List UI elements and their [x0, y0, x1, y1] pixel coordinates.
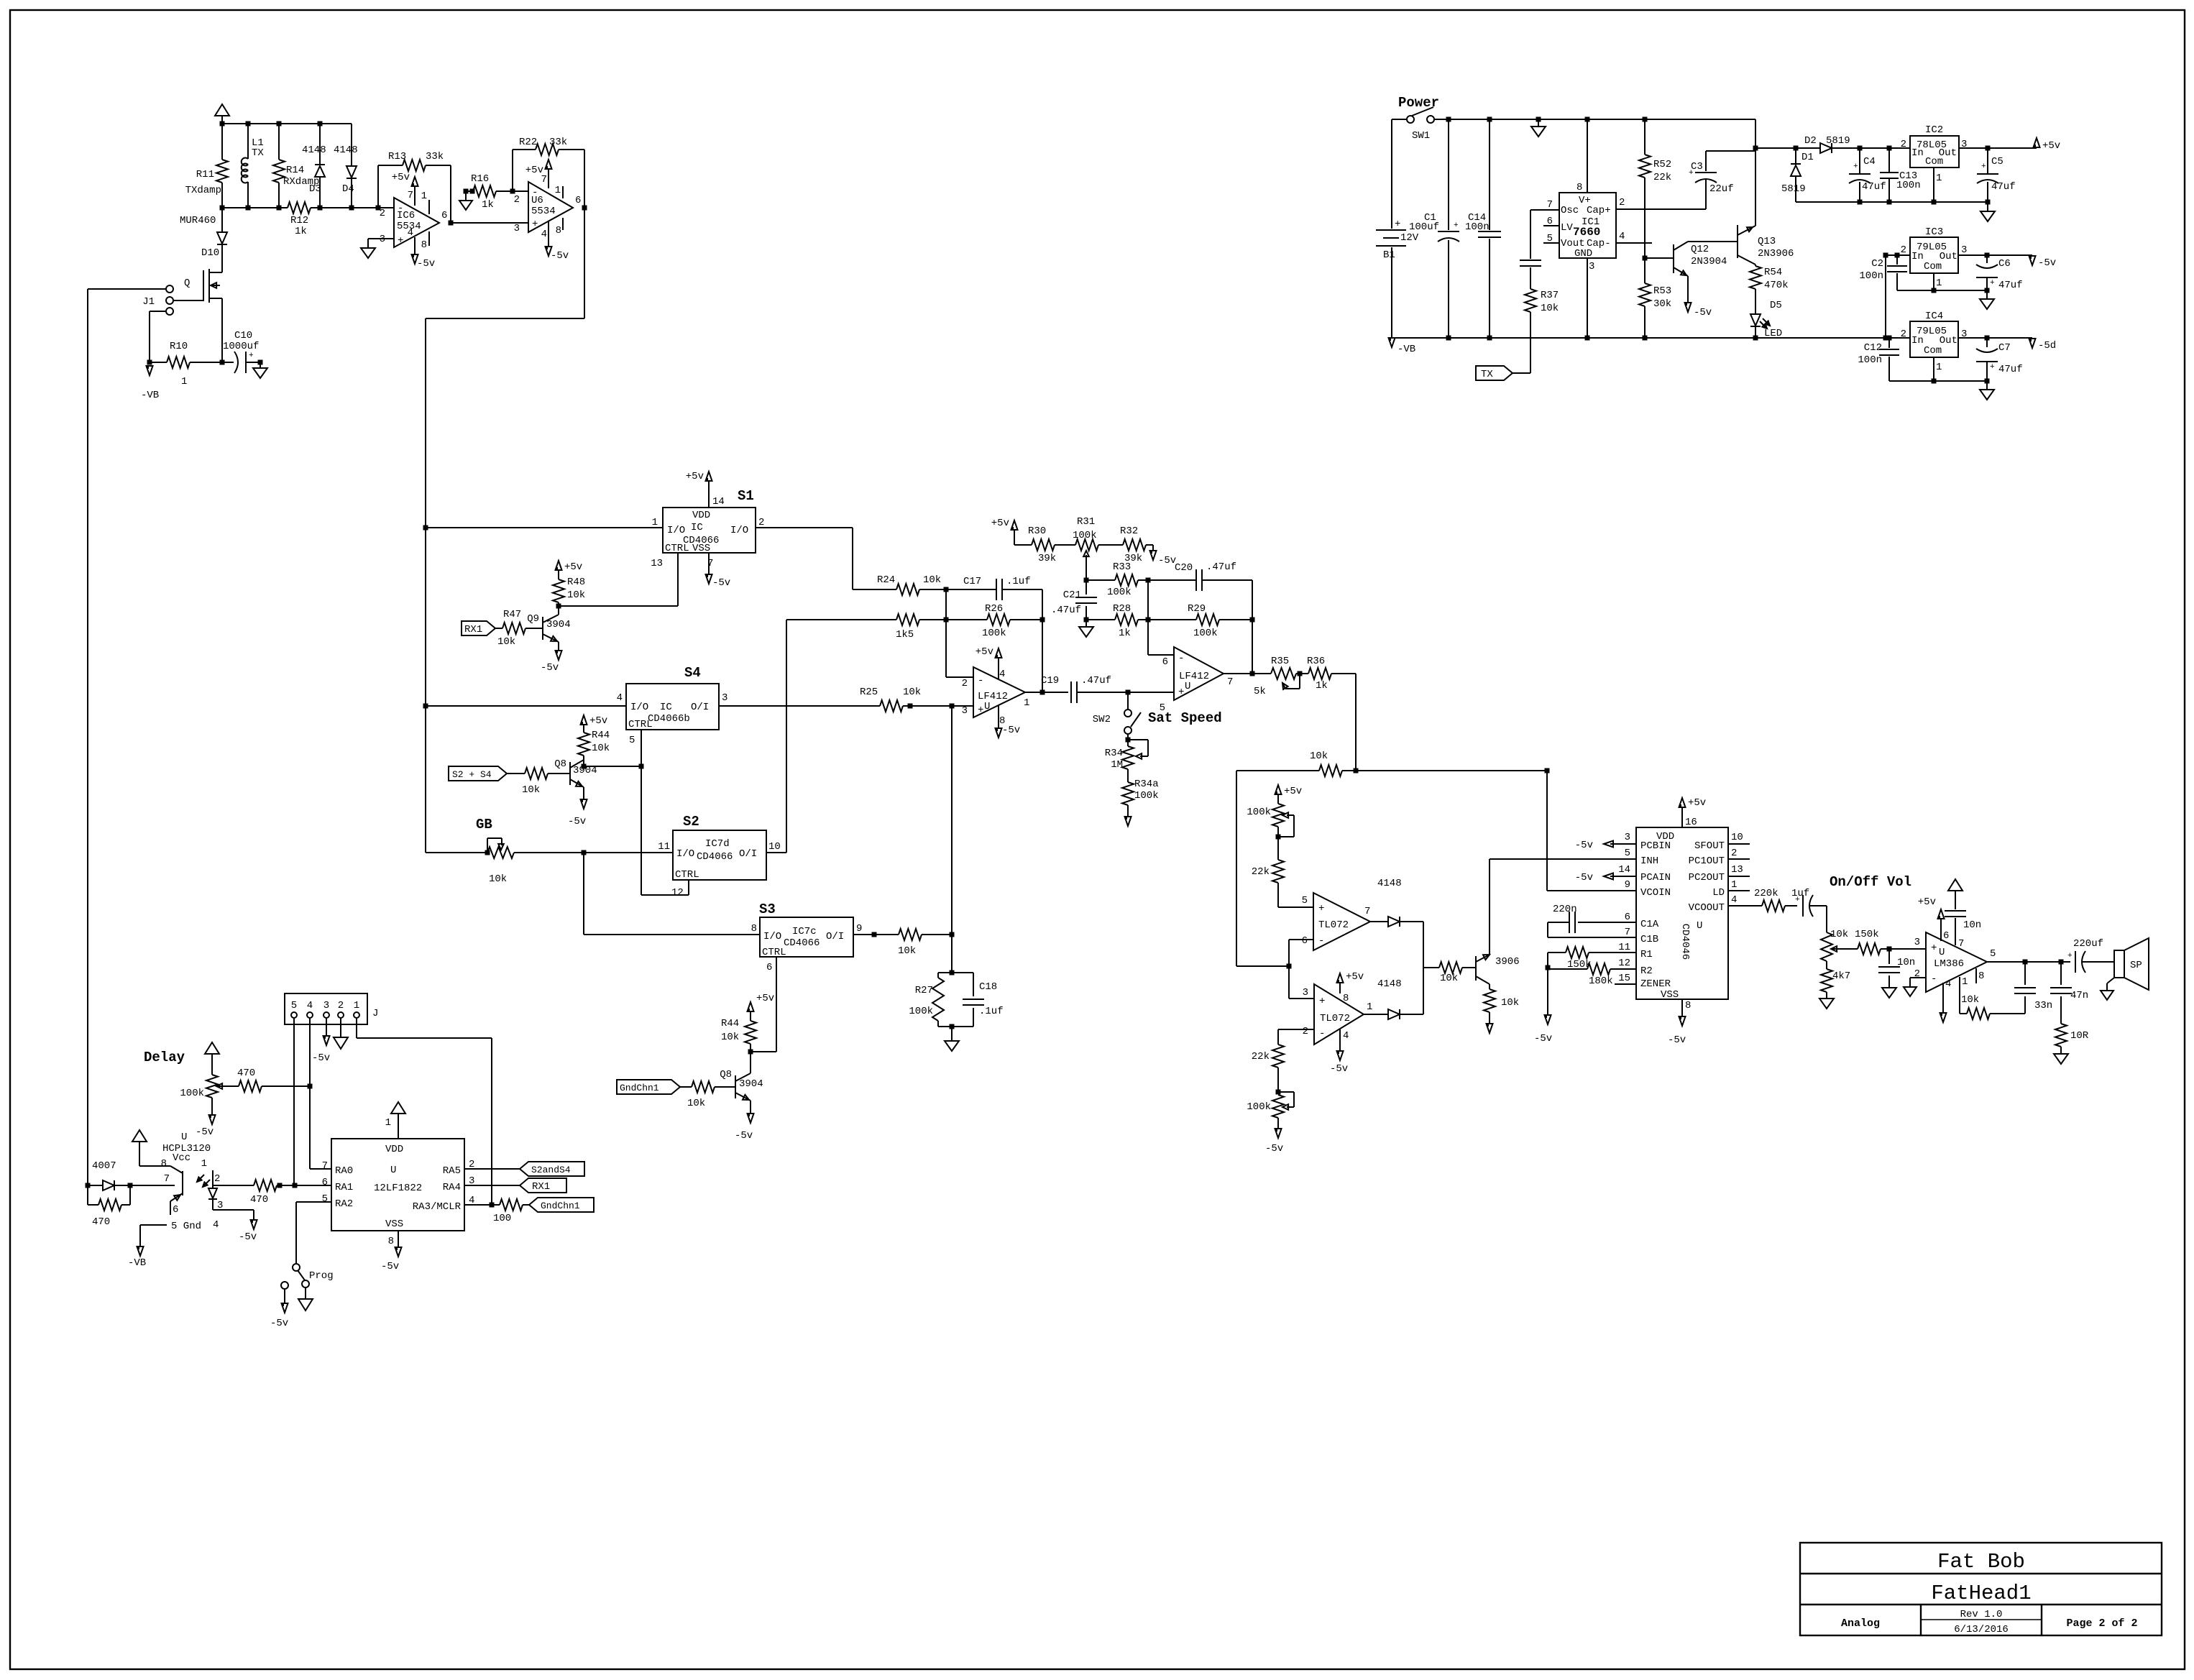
svg-text:IC2: IC2: [1925, 124, 1943, 136]
op-amp U LM386: [1914, 932, 1996, 992]
svg-text:100k: 100k: [1193, 628, 1218, 639]
IC U CD4046: [1636, 827, 1728, 1001]
svg-text:R34: R34: [1105, 748, 1123, 759]
svg-text:8: 8: [556, 225, 561, 237]
node C12 top: [1887, 336, 1892, 341]
svg-text:VSS: VSS: [385, 1218, 403, 1230]
power -5v IC6 pin4: [408, 227, 436, 270]
svg-text:100k: 100k: [1107, 587, 1132, 598]
svg-text:Q: Q: [184, 277, 190, 289]
svg-text:+: +: [1981, 162, 1986, 171]
pin6 label RA1: [322, 1177, 328, 1188]
svg-text:4148: 4148: [302, 144, 326, 156]
svg-text:2: 2: [338, 1000, 344, 1011]
svg-text:IC3: IC3: [1925, 226, 1943, 238]
node C4 top: [1858, 146, 1863, 151]
svg-text:4: 4: [1945, 978, 1951, 990]
svg-text:2: 2: [1901, 244, 1906, 256]
resistor 10k (3906 base): [1439, 962, 1476, 984]
svg-text:6: 6: [766, 962, 772, 973]
capacitor 220uf: [2067, 938, 2114, 973]
svg-text:4007: 4007: [92, 1160, 116, 1172]
power -5v R32: [1150, 545, 1177, 566]
power -5v LM386 pin4: [1940, 978, 1952, 1022]
wire pin3 column: [951, 706, 953, 973]
wire mix to VCOIN: [1547, 771, 1636, 891]
svg-text:2: 2: [514, 194, 520, 206]
svg-text:4: 4: [307, 1000, 313, 1011]
svg-text:12LF1822: 12LF1822: [374, 1183, 422, 1194]
node R33/C21 top: [1084, 578, 1089, 583]
power -5v U6 pin4: [541, 221, 569, 262]
svg-text:5: 5: [629, 735, 635, 746]
svg-text:8: 8: [1576, 182, 1582, 193]
svg-text:22k: 22k: [1252, 866, 1270, 878]
wire IC1 Osc pin7: [1530, 210, 1559, 259]
capacitor osc: [1520, 260, 1541, 289]
svg-text:D1: D1: [1801, 152, 1814, 163]
power -5v Prog: [270, 1282, 288, 1329]
svg-text:1: 1: [421, 191, 427, 202]
svg-text:100k: 100k: [1247, 1101, 1271, 1113]
LED pins 1-3: [201, 1158, 254, 1211]
switch Prog: [293, 1264, 334, 1287]
svg-text:CTRL: CTRL: [675, 869, 699, 881]
svg-text:-5v: -5v: [1694, 307, 1712, 318]
power +5v out: [2034, 138, 2061, 152]
svg-text:10k: 10k: [721, 1032, 739, 1043]
svg-text:R32: R32: [1120, 525, 1138, 537]
svg-text:10: 10: [768, 841, 781, 853]
pin2 PC1OUT stub: [1728, 848, 1750, 859]
potentiometer 10k On/Off Vol: [1821, 906, 1858, 961]
wire to C13: [1860, 147, 1910, 149]
power -5v Delay: [196, 1098, 216, 1138]
svg-text:10k: 10k: [1830, 929, 1848, 940]
svg-text:13: 13: [1731, 864, 1743, 876]
pin10 SFOUT stub: [1728, 832, 1750, 844]
svg-text:R44: R44: [592, 730, 610, 741]
svg-text:10k: 10k: [1961, 994, 1979, 1006]
svg-text:Rev 1.0: Rev 1.0: [1960, 1609, 2003, 1620]
svg-text:.1uf: .1uf: [979, 1006, 1004, 1017]
svg-text:-5v: -5v: [551, 250, 569, 262]
svg-text:C5: C5: [1991, 156, 2003, 167]
transistor Q8 3904 (S2+S4): [548, 758, 597, 800]
node pot/22k (top): [1276, 835, 1281, 840]
resistor 10k (3906 collector): [1484, 989, 1519, 1024]
svg-text:O/I: O/I: [739, 848, 757, 860]
svg-text:13: 13: [651, 558, 663, 569]
svg-text:1uf: 1uf: [1791, 888, 1809, 899]
wire S4 pin3 to R25: [719, 705, 880, 707]
capacitor 220n: [1548, 904, 1636, 937]
wire IC1 Cap+ pin2: [1616, 208, 1706, 210]
svg-text:+: +: [1318, 903, 1324, 914]
resistor R54 470k: [1750, 266, 1789, 314]
svg-text:GndChn1: GndChn1: [541, 1201, 580, 1211]
svg-text:TX: TX: [1481, 369, 1493, 380]
svg-text:+: +: [1931, 942, 1937, 954]
resistor R10 1: [150, 341, 222, 387]
svg-text:R2: R2: [1640, 965, 1653, 977]
node source/C10: [220, 360, 225, 365]
svg-text:GndChn1: GndChn1: [620, 1083, 659, 1093]
wire PIC VSS: [381, 1231, 402, 1272]
node C13 bottom: [1887, 200, 1892, 205]
svg-text:8: 8: [1343, 993, 1349, 1004]
power +5v U6 pin7: [525, 160, 552, 188]
wire S4 pin4: [426, 705, 626, 707]
svg-text:150k: 150k: [1855, 929, 1879, 940]
svg-text:-5v: -5v: [2038, 257, 2056, 269]
node R27 bottom: [950, 1024, 955, 1029]
node R53 rail: [1643, 336, 1648, 341]
svg-text:U: U: [1697, 920, 1702, 932]
svg-text:7: 7: [541, 174, 547, 185]
wire LF412a out: [1025, 692, 1042, 693]
node rail gnd: [1536, 117, 1541, 122]
node U6 output: [582, 206, 587, 211]
wire IC3 com: [1933, 273, 1934, 290]
svg-text:R27: R27: [915, 985, 933, 996]
svg-text:C20: C20: [1175, 562, 1193, 574]
capacitor C19 .47uf: [1041, 675, 1128, 703]
svg-text:1: 1: [1936, 277, 1942, 289]
svg-text:14: 14: [1618, 864, 1630, 876]
svg-text:2: 2: [1901, 139, 1906, 150]
wire pin6 column LF412b: [1148, 580, 1174, 655]
capacitor C7 47uf: [1976, 338, 2023, 381]
svg-text:8: 8: [999, 715, 1005, 727]
node R1/R2: [1546, 965, 1551, 970]
light arrows: [197, 1175, 210, 1187]
pin11 label S2: [658, 841, 670, 853]
node pot/22k (bottom): [1276, 1090, 1281, 1095]
svg-text:GND: GND: [1574, 248, 1592, 260]
pin13 label S1: [651, 558, 663, 569]
node R28/R29: [1146, 618, 1151, 623]
power -5v R1R2: [1534, 969, 1552, 1045]
svg-text:12V: 12V: [1400, 232, 1419, 244]
pin2 RA5: [464, 1159, 520, 1170]
svg-text:-5v: -5v: [270, 1318, 288, 1329]
node C21 bottom: [1084, 618, 1089, 623]
pin5 INH label: [1625, 848, 1630, 859]
wire U6-loop to GB: [426, 852, 487, 853]
diode D3 4148: [302, 124, 326, 208]
svg-text:C2: C2: [1871, 258, 1883, 270]
svg-text:CD4046: CD4046: [1679, 924, 1691, 960]
node S3 out: [872, 932, 877, 937]
svg-text:I/O: I/O: [630, 702, 648, 713]
svg-text:3904: 3904: [546, 619, 571, 630]
power +5v R48: [556, 561, 583, 573]
node R33/C20: [1146, 578, 1151, 583]
svg-text:+: +: [1454, 221, 1459, 230]
wire bottom rail right: [311, 207, 394, 208]
power -5v LED: [213, 1210, 257, 1243]
capacitor 1uf: [1791, 888, 1827, 917]
svg-text:U6: U6: [531, 195, 543, 206]
svg-text:D10: D10: [201, 247, 219, 259]
svg-text:3: 3: [722, 692, 727, 704]
node out/33n: [2023, 960, 2028, 965]
resistor 100 (MCLR): [493, 1199, 529, 1224]
capacitor 10n (input): [1878, 949, 1915, 988]
capacitor C2 100n: [1859, 255, 1907, 290]
svg-text:1: 1: [385, 1117, 391, 1129]
capacitor C17 .1uf: [946, 576, 1042, 600]
svg-text:+: +: [398, 235, 403, 247]
svg-text:Q12: Q12: [1691, 244, 1709, 255]
op-amp TL072 (upper): [1302, 893, 1371, 950]
ground +5v cluster: [1980, 202, 1995, 221]
title date: [1954, 1624, 2009, 1635]
svg-text:Q8: Q8: [554, 758, 566, 770]
resistor R48 10k: [553, 569, 585, 606]
power +5v LF412a: [976, 646, 1006, 680]
svg-text:4148: 4148: [334, 144, 358, 156]
power -5v Q8 (GndChn1): [735, 1114, 754, 1142]
wire mix node right: [1356, 770, 1547, 771]
node C13 top: [1887, 146, 1892, 151]
power arrow HCPL Vcc: [132, 1130, 147, 1166]
node mix/R36: [1354, 768, 1359, 774]
svg-text:RA2: RA2: [335, 1198, 353, 1210]
label Delay: [144, 1050, 185, 1065]
svg-text:Osc: Osc: [1561, 205, 1579, 216]
resistor 470 (Delay): [237, 1068, 310, 1092]
title Fat Bob: [1937, 1550, 2025, 1574]
svg-text:6: 6: [1162, 656, 1168, 668]
svg-text:Sat Speed: Sat Speed: [1148, 710, 1222, 726]
wire to HCPL pin7: [130, 1185, 175, 1186]
label 5 Gnd: [140, 1221, 201, 1232]
node R48 bottom: [556, 604, 561, 609]
svg-text:+: +: [1990, 279, 1995, 288]
svg-text:Analog: Analog: [1841, 1617, 1880, 1630]
svg-text:220k: 220k: [1754, 888, 1778, 899]
resistor 150k: [1548, 947, 1592, 970]
IC U 12LF1822: [331, 1139, 464, 1231]
svg-text:D5: D5: [1770, 300, 1782, 311]
svg-text:R37: R37: [1541, 290, 1559, 301]
svg-text:R12: R12: [290, 215, 308, 226]
wire C19 to LF412b pin5: [1128, 692, 1174, 693]
resistor R25 10k: [860, 687, 921, 712]
pin8 comp bar U6: [556, 218, 563, 237]
node bottom rail at D4: [349, 206, 354, 211]
svg-text:2N3906: 2N3906: [1758, 248, 1794, 260]
node U6 pin2: [510, 189, 515, 194]
svg-text:33n: 33n: [2034, 1000, 2052, 1011]
wire TL072a pin6: [1289, 940, 1314, 999]
svg-text:R34a: R34a: [1134, 779, 1159, 790]
svg-text:-: -: [1318, 935, 1324, 947]
svg-text:1: 1: [1962, 976, 1968, 988]
diode 4148 (lower): [1364, 978, 1423, 1019]
svg-text:ZENER: ZENER: [1640, 978, 1671, 990]
resistor R37 10k: [1525, 289, 1559, 373]
svg-text:1k: 1k: [1119, 628, 1131, 639]
pin3 label S4: [722, 692, 727, 704]
wire IC4 com: [1933, 357, 1934, 381]
svg-text:100k: 100k: [1247, 807, 1271, 818]
svg-text:R52: R52: [1653, 159, 1671, 170]
transistor Q (MOSFET): [184, 245, 222, 362]
svg-text:5: 5: [1990, 948, 1996, 960]
svg-text:CTRL: CTRL: [665, 543, 689, 554]
label On/Off Vol: [1830, 874, 1911, 890]
node C7 top: [1985, 336, 1990, 341]
svg-text:8: 8: [1685, 1000, 1691, 1011]
power -5v Q8 (S2+S4): [568, 799, 587, 827]
svg-text:470: 470: [92, 1216, 110, 1228]
power -VB label: [1389, 338, 1416, 355]
svg-text:39k: 39k: [1038, 553, 1056, 564]
svg-text:3: 3: [1589, 261, 1594, 272]
resistor 10k (S3 out): [874, 929, 952, 957]
svg-text:3: 3: [962, 705, 968, 717]
svg-text:C1A: C1A: [1640, 919, 1659, 930]
node rail C1 bot: [1446, 336, 1451, 341]
title FatHead1: [1931, 1582, 2031, 1605]
pin5 label S4: [629, 735, 635, 746]
wire J pin5: [293, 1018, 295, 1185]
svg-text:VDD: VDD: [692, 510, 710, 521]
IC3 79L05: [1901, 226, 1968, 289]
op-amp LF412 U (second): [1160, 647, 1234, 714]
pin9 VCOIN label: [1625, 879, 1630, 891]
svg-text:47uf: 47uf: [1991, 181, 2016, 193]
power -5v pot (bottom): [1265, 1118, 1283, 1155]
node left rail/4007: [86, 1183, 91, 1188]
resistor 10k (S2+S4 base): [507, 768, 548, 796]
resistor 220k: [1754, 888, 1797, 912]
wire LF412b out: [1224, 673, 1252, 674]
svg-text:VSS: VSS: [1661, 989, 1679, 1001]
wire S3 ctrl: [751, 957, 776, 1052]
svg-text:-VB: -VB: [1397, 344, 1415, 355]
svg-text:-: -: [1319, 1028, 1325, 1039]
capacitor C3 22uf: [1689, 151, 1755, 209]
svg-text:Power: Power: [1398, 95, 1439, 111]
svg-text:12: 12: [671, 887, 684, 899]
wire IC6 pin3 gnd: [361, 239, 394, 258]
power -5v LF412a: [996, 706, 1021, 738]
node R29 right: [1250, 618, 1255, 623]
wire IC1 GND pin3: [1587, 258, 1588, 338]
svg-text:B1: B1: [1383, 249, 1395, 261]
wire R25 to LF412 pin3: [910, 705, 973, 707]
wire IC3-IC4 vert: [1885, 255, 1886, 338]
svg-text:C17: C17: [963, 576, 981, 587]
power +5v R44 (GndChn1): [748, 993, 775, 1011]
svg-text:100k: 100k: [982, 628, 1006, 639]
resistor 22k (top): [1252, 827, 1284, 907]
inductor L1 TX: [242, 124, 265, 208]
pin11 R1: [1589, 942, 1636, 953]
pin4 label S4: [617, 692, 623, 704]
svg-text:+: +: [1990, 363, 1995, 372]
svg-text:10k: 10k: [903, 687, 921, 698]
svg-text:-5v: -5v: [1265, 1143, 1283, 1155]
capacitor C1 100uf: [1409, 119, 1459, 338]
node S4 pin4 rail: [423, 704, 428, 709]
svg-text:2N3904: 2N3904: [1691, 256, 1727, 267]
svg-text:R10: R10: [170, 341, 188, 352]
svg-text:10R: 10R: [2070, 1030, 2089, 1042]
pin12 R2: [1610, 958, 1636, 969]
transistor Q9 3904: [525, 606, 571, 651]
svg-text:1: 1: [652, 517, 658, 528]
resistor R33 100k: [1086, 561, 1148, 598]
svg-text:.47uf: .47uf: [1206, 561, 1236, 573]
wire IC2 out: [1959, 147, 2037, 149]
com rail IC4: [1889, 380, 1987, 382]
net flag S2 + S4 (source): [449, 766, 507, 781]
svg-text:-5v: -5v: [1534, 1033, 1552, 1045]
wire U6 output loop: [426, 208, 584, 853]
svg-text:VDD: VDD: [385, 1144, 403, 1155]
svg-text:+: +: [2067, 952, 2073, 960]
svg-text:CTRL: CTRL: [762, 947, 786, 958]
svg-text:3906: 3906: [1495, 956, 1520, 968]
resistor R32 39k: [1098, 525, 1153, 564]
power -5v TL072 pin4: [1330, 1029, 1349, 1075]
svg-text:1: 1: [1731, 879, 1737, 891]
svg-text:IC7d: IC7d: [705, 838, 730, 850]
svg-text:VSS: VSS: [692, 543, 710, 554]
svg-text:4: 4: [1731, 894, 1737, 906]
svg-text:470k: 470k: [1764, 280, 1789, 291]
net flag RX1 (source): [462, 621, 495, 635]
wire D2 row: [1755, 147, 1796, 149]
LED D5: [1750, 300, 1782, 339]
node C5 bottom: [1986, 200, 1991, 205]
wire diode column: [1423, 922, 1424, 1014]
svg-text:TXdamp: TXdamp: [185, 185, 221, 196]
pin8 VSS: [1668, 999, 1691, 1046]
svg-text:7: 7: [1625, 927, 1630, 938]
svg-text:47uf: 47uf: [1862, 181, 1886, 193]
IC4 79L05: [1901, 311, 1968, 373]
wire IC3 out: [1958, 254, 2032, 256]
svg-text:100n: 100n: [1859, 270, 1883, 282]
ground below 10n: [1882, 988, 1896, 998]
capacitor C21 .47uf: [1051, 580, 1097, 620]
svg-text:7: 7: [1547, 199, 1553, 211]
ground at C10: [253, 362, 267, 378]
title Rev 1.0: [1960, 1609, 2003, 1620]
svg-text:7: 7: [322, 1160, 328, 1172]
svg-text:R25: R25: [860, 687, 878, 698]
wire S1 pin13 ctrl: [559, 553, 678, 606]
svg-text:100: 100: [493, 1213, 511, 1224]
net flag S2andS4 (dest): [520, 1162, 584, 1176]
node pin6 junction: [1287, 964, 1292, 969]
wire RA2 to Prog: [296, 1202, 331, 1264]
pin5 label RA2: [322, 1193, 328, 1205]
svg-text:C7: C7: [1998, 342, 2011, 354]
diode 4007: [88, 1160, 130, 1190]
svg-text:RA0: RA0: [335, 1165, 353, 1177]
svg-text:9: 9: [1625, 879, 1630, 891]
svg-text:220n: 220n: [1553, 904, 1577, 915]
svg-text:CD4066b: CD4066b: [648, 713, 690, 725]
svg-text:22uf: 22uf: [1709, 183, 1734, 195]
